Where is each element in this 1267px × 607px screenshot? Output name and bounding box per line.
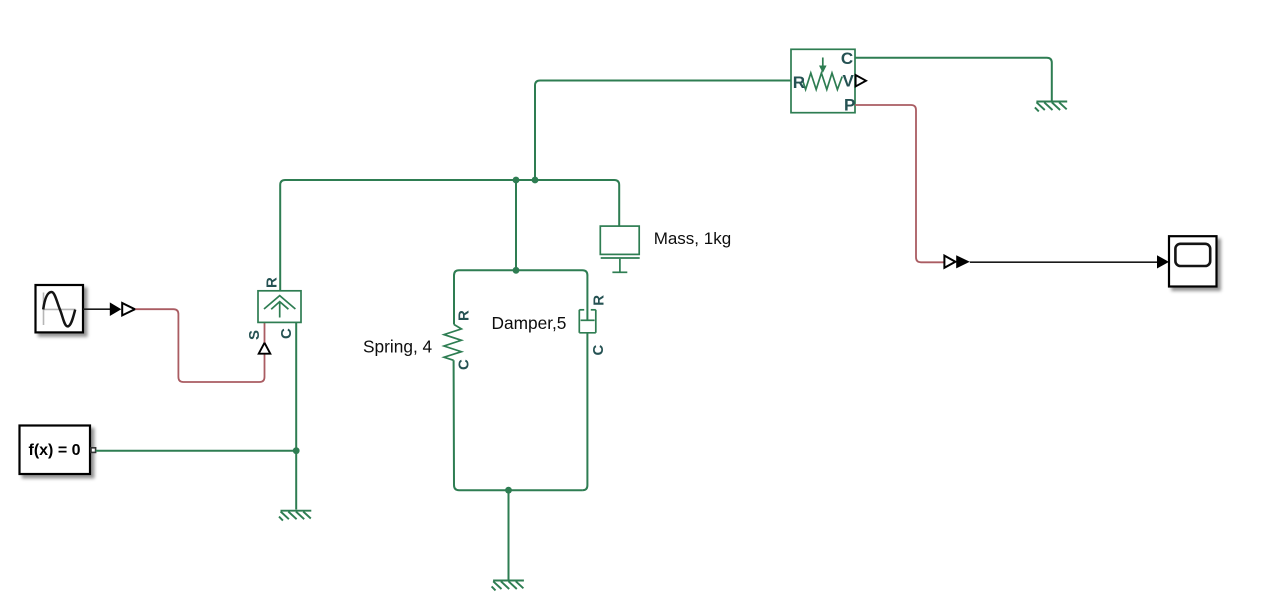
block Mass 1kg — [600, 226, 639, 254]
block Simulink-PS Converter (hollow triangle) — [122, 303, 135, 315]
mass icon base lines — [601, 258, 640, 272]
wire force source C down to ground (green) — [295, 323, 297, 510]
wire sine to converter (signal) — [83, 308, 110, 310]
svg-text:Damper,5: Damper,5 — [492, 313, 567, 333]
svg-text:R: R — [793, 73, 805, 92]
svg-text:Mass, 1kg: Mass, 1kg — [654, 229, 731, 248]
wire force source R up and right to junctions (green) — [280, 180, 619, 291]
svg-text:S: S — [246, 330, 263, 340]
svg-text:R: R — [455, 310, 472, 321]
damper (translational damper icon) — [579, 310, 596, 333]
wire sensor P to PS-Simulink converter (red) — [855, 105, 944, 262]
port marker S (hollow up triangle) — [259, 343, 271, 354]
port marker V (hollow right triangle) — [856, 75, 866, 86]
solver port square — [91, 448, 96, 453]
wire solver to network (green) — [96, 450, 297, 452]
sine icon axes — [43, 293, 76, 326]
junction dot loop bottom — [505, 487, 512, 494]
scope screen icon — [1175, 244, 1210, 266]
svg-text:f(x) = 0: f(x) = 0 — [29, 442, 81, 459]
block PS-Simulink Converter (hollow triangle) — [944, 256, 955, 268]
wire loop bottom to ground — [508, 490, 510, 579]
svg-text:C: C — [455, 359, 472, 370]
ground (mechanical reference, left) — [279, 511, 311, 521]
ground (mechanical reference, top right) — [1035, 102, 1067, 112]
ground (mechanical reference, bottom center) — [492, 581, 524, 591]
junction dot loop top — [513, 267, 520, 274]
svg-text:Spring, 4: Spring, 4 — [363, 337, 433, 357]
sensor icon arrow down — [822, 58, 824, 67]
wire converter to scope (signal) — [970, 261, 1158, 263]
sensor icon potentiometer zigzag — [803, 73, 842, 90]
arrowhead into converter — [110, 302, 122, 316]
block Sine Wave source — [36, 285, 84, 332]
wire sensor C to ground (green) — [855, 58, 1052, 101]
wire loop right lower segment — [582, 333, 587, 490]
svg-text:R: R — [264, 277, 281, 288]
junction dot B — [532, 177, 539, 184]
wire S marker to block (red) — [264, 323, 266, 343]
block Scope — [1169, 236, 1217, 286]
wire loop left lower segment — [454, 360, 459, 490]
junction dot solver net — [293, 447, 300, 454]
wire PS signal converter to S port (red) — [135, 309, 264, 382]
spring-damper loop top wire (green) — [454, 270, 587, 275]
block Ideal Translational Motion Sensor — [791, 49, 855, 112]
sine icon curve — [43, 292, 75, 326]
wire loop left upper segment — [453, 275, 455, 325]
svg-text:V: V — [843, 72, 855, 91]
svg-text:C: C — [841, 49, 853, 68]
spring (translational spring icon) — [444, 325, 461, 361]
svg-text:R: R — [590, 295, 607, 306]
arrowhead out of converter — [956, 255, 970, 268]
svg-text:P: P — [844, 96, 855, 115]
wire loop right upper segment (damper rod) — [586, 275, 588, 320]
wire loop bottom (green) — [459, 489, 582, 491]
svg-text:C: C — [278, 328, 295, 339]
block Ideal Force Source — [258, 291, 301, 323]
block Solver Configuration f(x)=0 — [20, 426, 91, 475]
svg-text:C: C — [590, 345, 607, 356]
force source icon (double chevron arrow up) — [264, 296, 295, 318]
arrowhead into scope — [1157, 255, 1169, 268]
wire junction down to spring-damper loop top (green) — [515, 180, 517, 270]
wire junction up to sensor R (green) — [535, 81, 791, 181]
junction dot A — [513, 177, 520, 184]
